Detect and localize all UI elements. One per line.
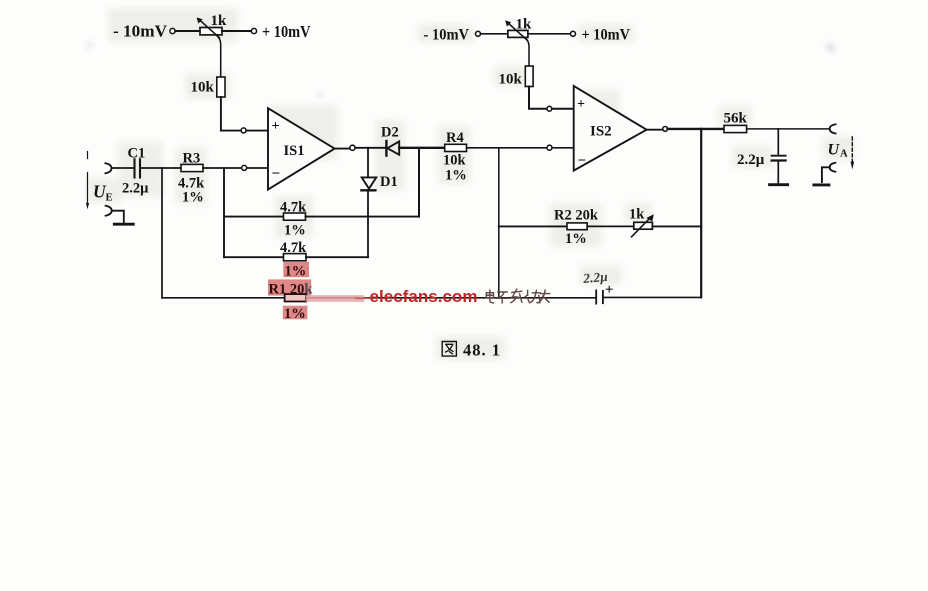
potentiometer P3 1k body (634, 222, 653, 229)
wire IS1 output to node (335, 148, 350, 150)
op-amp IS2 (574, 86, 647, 171)
wire IS2 output down right side (700, 129, 702, 297)
wire IS2 - node down to R2 line and bottom rail (498, 148, 500, 298)
arrow UA direction (dashed) (851, 137, 853, 165)
svg-text:1%: 1% (284, 223, 306, 239)
wire node to IS2 + pin (552, 108, 574, 110)
watermark chinese characters dianzifashaoyou (486, 289, 549, 303)
junction node IS2 output (663, 126, 668, 131)
svg-text:+ 10mV: + 10mV (262, 22, 311, 41)
junction node at IS2 + input (547, 106, 552, 111)
wire pot P2 to +10mV terminal (528, 33, 570, 35)
svg-text:E: E (106, 193, 113, 204)
wire -10mV terminal to pot P2 (481, 33, 508, 35)
wire D2 node down to feedback line 1 (418, 148, 420, 217)
wire output node to D2 (355, 147, 385, 149)
wire feedback 4.7k upper right segment (306, 216, 420, 218)
svg-text:R2 20k: R2 20k (554, 208, 599, 224)
svg-text:2.2μ: 2.2μ (737, 152, 765, 168)
svg-text:1k: 1k (211, 13, 228, 29)
svg-text:10k: 10k (191, 80, 215, 96)
svg-text:4.7k: 4.7k (280, 200, 307, 216)
diode D1 (362, 177, 377, 188)
output terminal UA upper (830, 124, 836, 133)
terminal -10mV right (476, 31, 481, 36)
capacitor 2.2u output top lead (777, 129, 779, 155)
svg-text:D1: D1 (380, 174, 398, 190)
wire R2 left segment (499, 225, 567, 227)
svg-text:−: − (578, 153, 587, 169)
svg-text:C1: C1 (128, 146, 146, 162)
highlight box over R1 20k label (268, 279, 311, 295)
wire pot P3 to IS2 output rail (652, 225, 701, 227)
resistor R3 body (181, 164, 203, 171)
resistor R1 body (285, 294, 307, 301)
wire -10mV terminal to pot P1 (175, 30, 200, 32)
wire input terminal to C1 (111, 167, 133, 169)
svg-text:10k: 10k (443, 153, 467, 169)
wire R2 to pot P3 (587, 225, 634, 227)
wire bottom rail right of series cap (604, 296, 701, 298)
svg-text:+: + (577, 97, 585, 112)
svg-text:1%: 1% (565, 231, 587, 247)
svg-text:4.7k: 4.7k (280, 240, 307, 256)
input terminal UE upper (105, 163, 111, 173)
wire IS1 - node down to both 4.7k feedback resistors (223, 168, 225, 257)
potentiometer P3 arrow (632, 217, 651, 237)
wire bottom rail left of series cap (499, 297, 596, 299)
wire input node A down to R1 (161, 168, 163, 298)
svg-text:elecfans.com: elecfans.com (370, 287, 478, 306)
wire feedback 4.7k upper left segment (224, 216, 284, 218)
svg-text:- 10mV: - 10mV (113, 22, 168, 41)
diode D2 (385, 141, 387, 156)
wire C1 to R3 with junction node A (141, 167, 181, 169)
svg-text:1k: 1k (516, 17, 533, 33)
highlight box over 1% lower feedback (283, 262, 309, 277)
svg-text:56k: 56k (724, 111, 748, 127)
wire 56k to output terminal (747, 128, 830, 130)
svg-text:2.2μ: 2.2μ (582, 269, 609, 286)
potentiometer P1 1k body (200, 28, 222, 35)
svg-text:2.2μ: 2.2μ (122, 181, 149, 197)
svg-text:48. 1: 48. 1 (463, 341, 501, 360)
wire node to IS1 - pin (247, 167, 268, 169)
resistor 10k (left offset) (217, 77, 225, 97)
svg-text:1%: 1% (285, 264, 307, 280)
wire 10k to IS1 noninverting input (221, 97, 241, 131)
output terminal UA lower with ground stub (830, 163, 836, 172)
wire node to IS1 + pin (246, 130, 268, 132)
capacitor 2.2u output plates (772, 155, 786, 157)
svg-text:10k: 10k (499, 72, 523, 88)
potentiometer P1 arrow (199, 20, 220, 38)
wire 10k to IS2 noninverting input (529, 87, 547, 109)
input terminal UE lower with ground stub (106, 206, 112, 216)
svg-text:1%: 1% (182, 190, 204, 206)
svg-text:IS1: IS1 (284, 143, 305, 159)
wire P2 wiper down to 10k right (525, 37, 530, 66)
wire feedback 4.7k lower right segment (306, 256, 368, 258)
op-amp IS1 (268, 108, 335, 189)
svg-text:R4: R4 (446, 130, 464, 146)
wire R4 to IS2 inverting node (467, 147, 548, 149)
resistor R4 body (445, 144, 467, 151)
capacitor 2.2u series (bottom rail) (595, 290, 597, 303)
capacitor C1 2.2u (133, 159, 135, 177)
wire D1 down to feedback line 2 (367, 190, 369, 257)
resistor 4.7k feedback lower (284, 254, 307, 261)
svg-text:U: U (828, 142, 841, 159)
svg-text:- 10mV: - 10mV (424, 27, 470, 44)
wire output node to 56k (668, 128, 724, 130)
svg-text:1%: 1% (445, 168, 467, 184)
svg-text:A: A (840, 149, 848, 160)
junction node IS1 output (350, 145, 355, 150)
resistor 56k body (724, 125, 747, 132)
highlight box over 1% R1 (283, 306, 308, 320)
resistor 4.7k feedback upper (284, 213, 306, 220)
wire feedback 4.7k lower left segment (224, 256, 284, 258)
svg-text:1%: 1% (284, 306, 306, 322)
terminal +10mV right (571, 31, 576, 36)
highlight overlay on wire right of R1 (306, 295, 365, 302)
arrow UE direction (87, 152, 89, 159)
terminal -10mV left (170, 28, 175, 33)
wire R3 to IS1 inverting input (203, 167, 242, 169)
potentiometer P2 1k body (508, 30, 528, 37)
wire R1 right segment to IS2 - node (306, 297, 499, 299)
wire R1 left segment (162, 297, 285, 299)
svg-text:+ 10mV: + 10mV (582, 27, 631, 44)
potentiometer P2 arrow (508, 23, 528, 41)
wire pot P1 to +10mV terminal (222, 30, 251, 32)
svg-text:D2: D2 (381, 125, 399, 141)
caption figure 48.1 (442, 342, 456, 357)
wire node to IS2 - pin (552, 147, 574, 149)
svg-text:R3: R3 (183, 151, 201, 167)
wire P1 wiper down to 10k (217, 35, 221, 77)
junction node at IS1 + input (241, 128, 246, 133)
svg-text:+: + (272, 119, 280, 134)
wire D2 to R4 (399, 147, 445, 149)
terminal +10mV left (251, 28, 256, 33)
svg-text:IS2: IS2 (590, 124, 612, 140)
resistor 10k (right offset) (525, 66, 533, 87)
wire IS2 output to node (647, 129, 663, 131)
svg-text:−: − (272, 166, 281, 182)
svg-text:1k: 1k (629, 207, 645, 223)
capacitor bottom lead and ground bar (777, 162, 779, 184)
wire IS1 output node down to D1 (367, 148, 369, 178)
junction node at IS1 - input (242, 165, 247, 170)
resistor R2 body (567, 223, 587, 230)
junction node IS2 - input (547, 145, 552, 150)
